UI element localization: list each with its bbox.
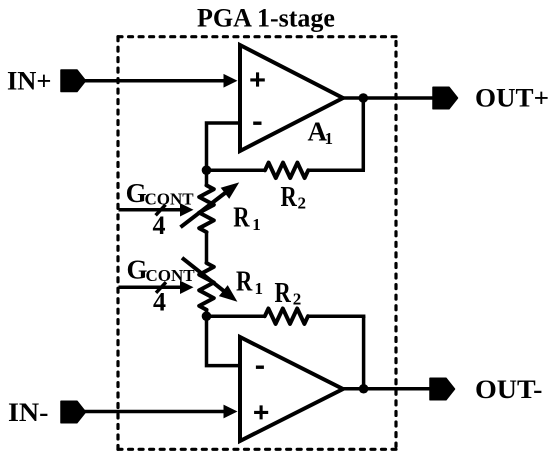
wire feedback branch down to output node (bottom) [362, 316, 366, 389]
port marker OUT+ [433, 87, 458, 109]
wire R1 bottom to junction [205, 310, 209, 316]
bus slash (bottom) [156, 282, 166, 293]
svg-text:IN-: IN- [8, 398, 49, 427]
node A (top feedback junction) [202, 165, 212, 175]
svg-text:CONT: CONT [145, 190, 195, 209]
port marker IN- [61, 401, 86, 423]
port marker IN+ [61, 70, 86, 92]
bus slash (top) [156, 205, 166, 216]
resistor R2 (bottom) zigzag [265, 309, 308, 324]
wire junction to R2 bottom [207, 314, 267, 318]
op-amp U1 triangle [240, 45, 343, 151]
arrow through R1 bottom (variable symbol) [182, 258, 226, 293]
wire feedback A2 inverting input [207, 316, 241, 365]
wire R2 to output branch [307, 169, 365, 173]
svg-text:OUT+: OUT+ [475, 84, 549, 113]
svg-text:R: R [236, 267, 253, 298]
wire A1 output to OUT+ [343, 96, 434, 100]
dashed box (PGA 1-stage boundary) [118, 37, 396, 450]
svg-text:G: G [127, 255, 148, 285]
wire A2 output to OUT- [343, 387, 431, 391]
wire GCONT control arrow (top) [119, 208, 184, 212]
svg-text:4: 4 [153, 287, 166, 316]
svg-text:OUT-: OUT- [475, 375, 543, 404]
svg-text:G: G [126, 178, 147, 208]
node B (bottom feedback junction) [202, 311, 212, 321]
svg-text:CONT: CONT [146, 266, 196, 285]
wire between R1 resistors [205, 232, 209, 263]
svg-text:1: 1 [325, 129, 334, 148]
arrowhead IN+ wire [224, 74, 238, 88]
wire junction to R2 [207, 169, 267, 173]
op-amp U1 minus input symbol [253, 121, 261, 124]
wire GCONT control arrow (bottom) [119, 286, 184, 290]
arrow through R1 top (variable symbol) [181, 192, 228, 228]
svg-text:1: 1 [252, 215, 260, 234]
svg-text:PGA 1-stage: PGA 1-stage [197, 4, 335, 33]
op-amp U1 plus input symbol [250, 72, 264, 86]
resistor R2 (top) zigzag [265, 163, 308, 178]
wire IN+ to op-amp A1 non-inverting input [84, 79, 226, 83]
wire junction into R1 top [205, 170, 209, 186]
op-amp U2 minus input symbol [256, 366, 264, 369]
svg-text:4: 4 [153, 211, 166, 240]
resistor R1 (bottom, variable) zigzag [199, 263, 214, 310]
op-amp U2 plus input symbol [254, 405, 268, 419]
svg-text:R: R [281, 182, 298, 213]
wire feedback A1 inverting input [207, 123, 241, 170]
svg-text:R: R [275, 278, 292, 309]
svg-text:1: 1 [255, 279, 264, 298]
svg-text:2: 2 [298, 193, 307, 212]
node output A2 [359, 384, 369, 394]
port marker OUT- [430, 378, 455, 400]
wire IN- to op-amp A2 non-inverting input [84, 410, 226, 414]
svg-text:R: R [233, 203, 250, 234]
wire from output node down to feedback row [362, 98, 366, 170]
svg-text:2: 2 [293, 290, 302, 309]
arrowhead IN- wire [224, 405, 238, 419]
op-amp U2 triangle [240, 337, 343, 441]
resistor R1 (top, variable) zigzag [199, 185, 214, 232]
node output A1 [359, 93, 369, 103]
wire R2 bottom to output branch [307, 314, 365, 318]
svg-text:IN+: IN+ [7, 67, 52, 96]
